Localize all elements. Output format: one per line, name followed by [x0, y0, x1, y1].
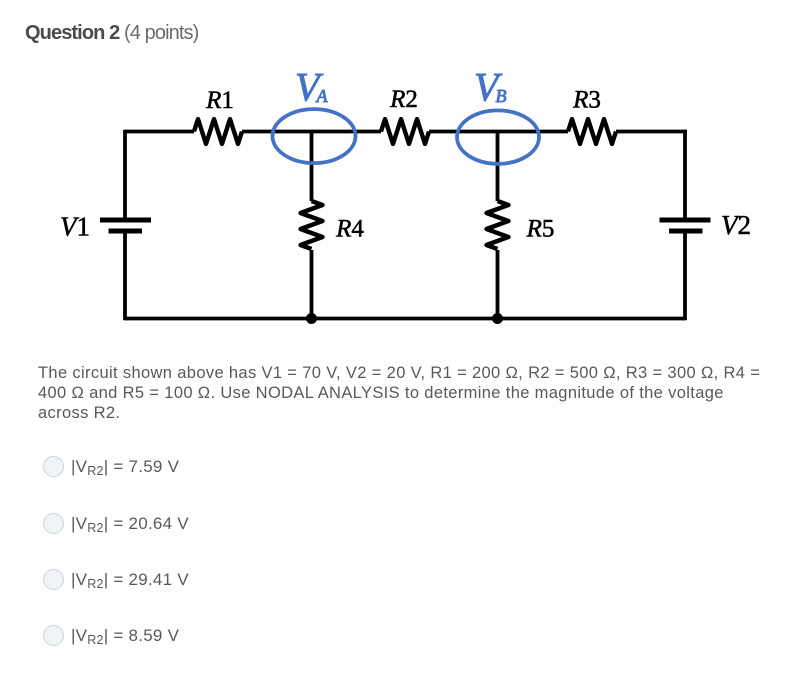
wire node B stem upper [496, 132, 500, 202]
junction node B-ground [492, 313, 503, 324]
node A marker ellipse [273, 109, 356, 163]
resistor R2 [381, 119, 429, 144]
question paragraph [38, 363, 808, 423]
battery V1 [100, 218, 151, 223]
svg-text:V2: V2 [721, 210, 751, 240]
svg-text:R5: R5 [526, 215, 555, 242]
wire between R2 and R3 [429, 130, 568, 134]
resistor R1 [194, 119, 242, 144]
wire between R1 and R2 [242, 130, 381, 134]
battery V2 [660, 218, 711, 223]
wire right side upper [683, 130, 687, 218]
wire top-right segment [616, 130, 687, 134]
option 2 [0, 0, 810, 1]
svg-text:VA: VA [295, 64, 328, 109]
svg-text:R3: R3 [572, 87, 601, 114]
node B marker ellipse [457, 110, 539, 163]
wire left side lower [123, 234, 127, 321]
wire node B stem lower [496, 250, 500, 319]
wire left side upper [123, 130, 127, 218]
option 3 [0, 0, 810, 1]
option 1 [0, 0, 810, 1]
junction node A-ground [306, 313, 317, 324]
wire node A stem upper [310, 132, 314, 202]
question header [25, 23, 198, 44]
svg-text:R2: R2 [389, 86, 418, 113]
resistor R3 [568, 119, 616, 144]
wire top-left segment [125, 130, 194, 134]
resistor R4 [301, 201, 323, 249]
circuit schematic [0, 0, 810, 360]
svg-text:V1: V1 [60, 212, 90, 242]
svg-text:VB: VB [474, 64, 506, 109]
wire node A stem lower [310, 250, 314, 319]
svg-text:R4: R4 [335, 215, 364, 242]
resistor R5 [487, 201, 509, 249]
option 4 [0, 0, 810, 1]
svg-text:R1: R1 [205, 87, 234, 114]
wire bottom [125, 317, 685, 321]
wire right side lower [683, 234, 687, 321]
